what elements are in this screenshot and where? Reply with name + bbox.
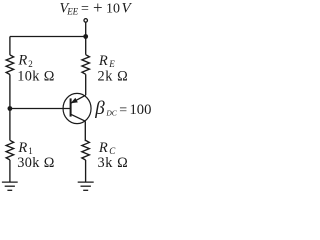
- wire base: [10, 108, 71, 110]
- wire top rail: [10, 36, 86, 38]
- svg-text:100: 100: [130, 102, 152, 118]
- svg-text:3k Ω: 3k Ω: [98, 155, 129, 171]
- wire left top: [9, 37, 11, 55]
- wire right top: [85, 37, 87, 55]
- node base divider: [7, 106, 12, 111]
- svg-text:EE: EE: [66, 7, 78, 17]
- label VEE = +10V: [60, 0, 133, 17]
- supply terminal VEE: [84, 19, 88, 23]
- svg-text:β: β: [94, 98, 105, 119]
- resistor R2: [6, 55, 13, 75]
- label beta DC = 100: [94, 98, 151, 119]
- resistor RE: [82, 55, 90, 75]
- label R2: [17, 53, 32, 69]
- resistor RC: [82, 140, 90, 160]
- transistor Q1: [63, 93, 91, 123]
- svg-text:R: R: [17, 53, 27, 69]
- wire left bottom: [9, 160, 11, 182]
- ground right: [78, 182, 94, 190]
- svg-text:R: R: [98, 53, 108, 69]
- svg-text:30k Ω: 30k Ω: [17, 155, 55, 171]
- svg-text:R: R: [17, 140, 27, 156]
- wire collector vertical: [84, 121, 86, 140]
- resistor R1: [6, 140, 13, 160]
- label RE: [98, 53, 115, 69]
- wire left middle: [9, 75, 11, 141]
- node top junction: [83, 34, 88, 39]
- svg-text:=: =: [81, 2, 89, 17]
- ground left: [2, 182, 18, 190]
- svg-text:+: +: [93, 0, 103, 17]
- svg-text:2k Ω: 2k Ω: [98, 68, 129, 84]
- wire terminal stem: [85, 22, 87, 36]
- label RC: [98, 140, 116, 156]
- wire emitter vertical: [85, 74, 87, 95]
- svg-text:10k Ω: 10k Ω: [17, 68, 55, 84]
- svg-text:=: =: [119, 103, 127, 118]
- svg-text:DC: DC: [105, 109, 117, 118]
- svg-text:10: 10: [106, 2, 120, 17]
- svg-text:R: R: [98, 140, 108, 156]
- wire right bottom: [85, 160, 87, 182]
- label R1: [17, 140, 32, 156]
